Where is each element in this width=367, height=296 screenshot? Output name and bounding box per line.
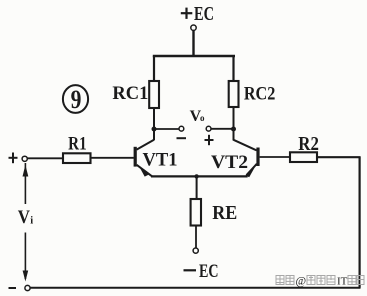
wire rail to RC2 bbox=[232, 56, 234, 82]
wire top supply rail bbox=[153, 55, 235, 58]
wire VT2 base to R2 bbox=[260, 156, 290, 158]
+EC supply terminal bbox=[191, 25, 196, 30]
polarity minus at Vo left bbox=[177, 137, 187, 139]
svg-text:i: i bbox=[30, 216, 33, 227]
label VT1 bbox=[143, 150, 178, 171]
wire R2 to right corner bbox=[317, 156, 361, 158]
resistor RC2 bbox=[229, 81, 239, 107]
wire +EC terminal to top rail bbox=[192, 30, 194, 56]
wire bus to RE bbox=[196, 176, 198, 199]
label RE bbox=[212, 203, 237, 224]
svg-text:RC2: RC2 bbox=[244, 83, 276, 104]
svg-text:@: @ bbox=[296, 276, 307, 288]
input minus polarity bbox=[9, 287, 17, 289]
resistor R2 bbox=[290, 152, 317, 162]
-EC supply terminal bbox=[193, 248, 198, 253]
svg-text:RC1: RC1 bbox=[112, 83, 148, 104]
wire Vo right terminal to RC2 node bbox=[211, 128, 234, 130]
label RC1 bbox=[112, 83, 148, 104]
transistor VT1 bbox=[134, 140, 154, 177]
input top terminal bbox=[22, 156, 27, 161]
label RC2 bbox=[244, 83, 276, 104]
svg-text:R1: R1 bbox=[68, 133, 87, 154]
wire junction to Vo left terminal bbox=[154, 128, 179, 130]
badge circled 9 bbox=[63, 85, 88, 114]
Vi arrow lower segment with arrowhead bbox=[23, 233, 29, 282]
Vi arrow upper segment bbox=[23, 163, 29, 204]
watermark toutiao bbox=[276, 276, 364, 288]
svg-text:EC: EC bbox=[194, 4, 214, 25]
wire right return bbox=[359, 157, 361, 288]
svg-text:EC: EC bbox=[199, 261, 219, 282]
wire RE to -EC terminal bbox=[195, 226, 197, 249]
label R2 bbox=[298, 134, 319, 155]
node RC1 / Vo junction bbox=[152, 127, 157, 132]
polarity plus at Vo right bbox=[205, 135, 214, 145]
resistor RE bbox=[191, 199, 201, 226]
label Vi bbox=[18, 207, 33, 228]
Vo left terminal bbox=[179, 126, 184, 131]
wire RC1 to VT1 collector node bbox=[153, 108, 155, 140]
resistor RC1 bbox=[149, 81, 159, 108]
svg-text:V: V bbox=[18, 207, 30, 228]
label VT2 bbox=[211, 152, 248, 173]
wire rail to RC1 bbox=[153, 56, 155, 82]
transistor VT2 bbox=[234, 140, 260, 177]
wire bottom return bbox=[30, 287, 360, 289]
label +EC bbox=[181, 4, 214, 25]
svg-text:IT: IT bbox=[337, 276, 348, 288]
wire R1 to VT1 base bbox=[91, 157, 134, 159]
input bottom terminal bbox=[25, 285, 30, 290]
label R1 bbox=[68, 133, 87, 154]
resistor R1 bbox=[63, 153, 91, 163]
svg-text:9: 9 bbox=[71, 85, 82, 114]
label Vo bbox=[190, 108, 205, 125]
wire input terminal to R1 bbox=[27, 157, 63, 159]
node emitter bus to RE bbox=[194, 174, 198, 178]
svg-text:VT1: VT1 bbox=[143, 150, 178, 171]
node RC2 / VT2 collector junction bbox=[231, 127, 236, 132]
svg-text:VT2: VT2 bbox=[211, 152, 248, 173]
wire RC2 to collector node bbox=[233, 107, 235, 141]
Vo right terminal bbox=[206, 126, 211, 131]
svg-text:RE: RE bbox=[212, 203, 237, 224]
svg-text:o: o bbox=[200, 113, 205, 123]
input plus polarity bbox=[9, 153, 18, 164]
label -EC bbox=[184, 261, 219, 282]
wire emitter bus bbox=[151, 175, 248, 177]
